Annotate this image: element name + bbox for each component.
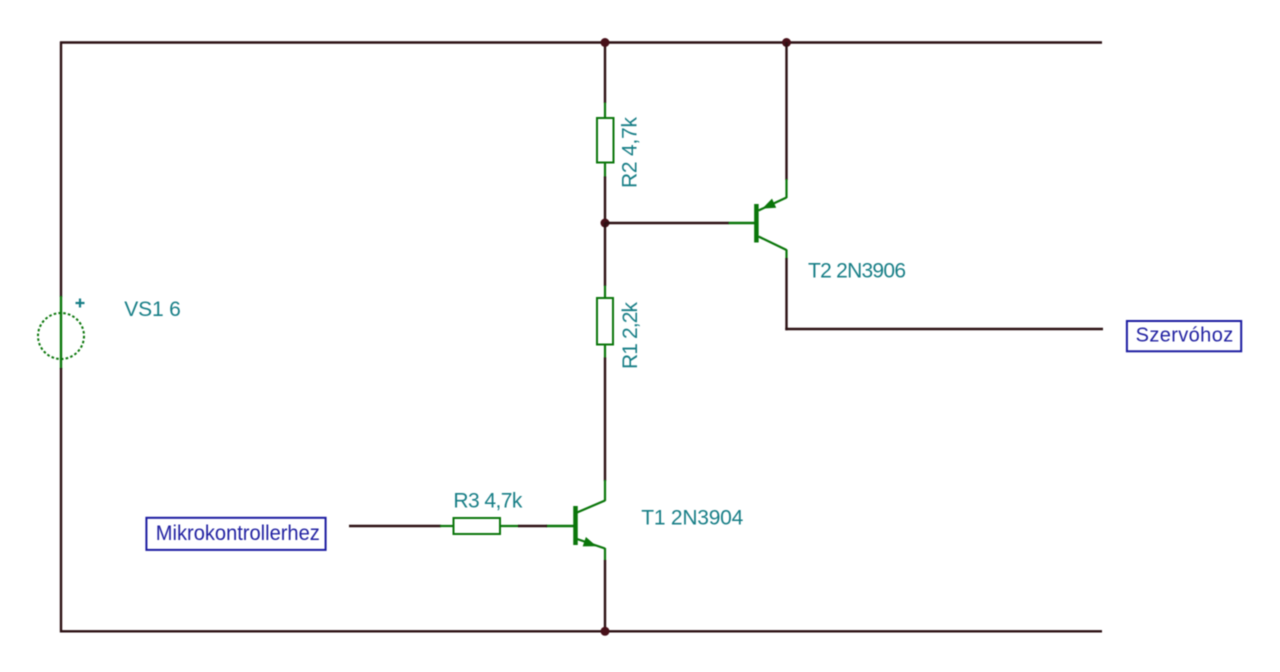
wire left rail lower segment [60, 368, 62, 633]
transistor T2 2N3906 [729, 179, 787, 259]
junction dot top rail at T2 [782, 38, 791, 47]
label box Szervohoz [1127, 321, 1241, 351]
wire T1 emitter to bottom rail [604, 560, 606, 632]
svg-text:Szervóhoz: Szervóhoz [1136, 324, 1234, 346]
transistor T1 2N3904 [546, 480, 605, 561]
resistor R1 [597, 286, 613, 359]
svg-text:R1 2,2k: R1 2,2k [619, 302, 642, 370]
wire R2 to node A [604, 177, 606, 224]
wire R3 to T1 base [518, 525, 547, 527]
wire T2 collector to Szervohoz [785, 328, 1103, 330]
voltage source VS1 [38, 296, 84, 369]
junction dot top rail at R2 [601, 38, 610, 47]
wire T2 emitter to top rail [785, 42, 787, 180]
svg-text:R2 4,7k: R2 4,7k [619, 117, 642, 189]
label box Mikrokontrollerhez [146, 518, 325, 550]
resistor R3 [440, 518, 519, 534]
junction dot bottom rail [601, 627, 610, 636]
wire R1 to T1 collector [604, 358, 606, 482]
wire T2 collector down [785, 258, 787, 330]
svg-text:Mikrokontrollerhez: Mikrokontrollerhez [156, 522, 320, 545]
svg-text:VS1 6: VS1 6 [124, 298, 181, 321]
wire top supply rail [60, 41, 1102, 43]
wire left rail upper segment [60, 42, 62, 298]
wire middle column from top rail to R2 [604, 42, 606, 103]
svg-text:T1 2N3904: T1 2N3904 [641, 507, 743, 530]
svg-text:T2 2N3906: T2 2N3906 [808, 260, 906, 283]
plus sign of VS1 [76, 299, 85, 308]
resistor R2 [597, 103, 614, 178]
node A junction dot [601, 219, 610, 228]
wire Mikrokontrollerhez to R3 [349, 525, 441, 527]
wire node A to R1 [604, 223, 606, 286]
svg-text:R3 4,7k: R3 4,7k [453, 490, 523, 513]
wire node A to T2 base [605, 222, 729, 224]
wire bottom rail [60, 630, 1102, 632]
